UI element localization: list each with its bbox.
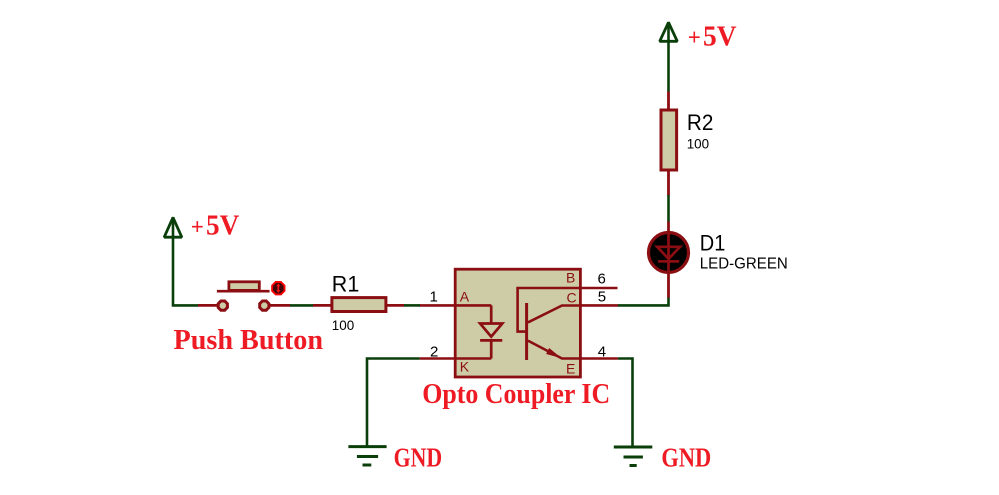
svg-text:GND: GND — [661, 442, 711, 472]
svg-text:GND: GND — [394, 443, 443, 473]
wire push button to R1 — [290, 304, 313, 307]
svg-text:4: 4 — [598, 344, 606, 361]
push button actuator marker — [272, 282, 284, 294]
diode D1 LED-GREEN — [649, 222, 689, 298]
svg-text:100: 100 — [332, 317, 355, 333]
emitter arrowhead — [547, 349, 560, 358]
svg-text:2: 2 — [430, 344, 438, 361]
svg-text:C: C — [567, 289, 577, 305]
svg-text:R1: R1 — [332, 271, 360, 296]
wire pin4 to right ground — [618, 359, 633, 447]
pin 4 stub — [580, 357, 618, 360]
svg-text:6: 6 — [598, 270, 606, 287]
svg-text:K: K — [460, 359, 470, 375]
pin 1 stub and internal LED anode — [420, 304, 492, 307]
wire D1 to pin5 — [618, 298, 669, 306]
svg-text:5V: 5V — [703, 21, 737, 52]
ground (left) — [348, 447, 386, 465]
phototransistor emitter to pin 4 — [528, 341, 581, 359]
pin 5 stub — [580, 304, 618, 307]
svg-text:Opto Coupler IC: Opto Coupler IC — [422, 379, 610, 410]
phototransistor collector to pin 5 — [528, 306, 581, 323]
svg-text:B: B — [566, 269, 575, 285]
phototransistor base bar — [525, 303, 528, 360]
wire R1 to pin1 — [404, 304, 420, 307]
opto coupler IC body — [455, 269, 580, 377]
svg-text:100: 100 — [687, 135, 710, 151]
wire R2 to D1 — [667, 195, 670, 222]
svg-text:D1: D1 — [700, 230, 726, 255]
svg-text:R2: R2 — [687, 110, 714, 135]
pin 6 stub and phototransistor base feed — [518, 288, 618, 332]
resistor R1 — [313, 298, 404, 312]
svg-text:Push Button: Push Button — [174, 325, 324, 356]
svg-text:A: A — [460, 289, 470, 305]
svg-text:+: + — [191, 214, 204, 239]
power +5V terminal (left) — [164, 217, 198, 305]
svg-text:1: 1 — [430, 289, 438, 306]
svg-text:LED-GREEN: LED-GREEN — [700, 256, 788, 273]
internal LED diode of opto coupler — [480, 305, 502, 358]
ground (right) — [614, 447, 653, 466]
svg-text:5: 5 — [598, 288, 606, 305]
pin 2 stub and internal LED cathode — [420, 357, 492, 360]
power +5V terminal (right) — [660, 22, 678, 92]
svg-text:E: E — [566, 360, 575, 376]
svg-text:+: + — [688, 25, 701, 50]
push button — [198, 282, 290, 310]
svg-text:5V: 5V — [206, 211, 239, 242]
resistor R2 — [661, 92, 677, 196]
wire pin2 to left ground — [367, 359, 420, 447]
